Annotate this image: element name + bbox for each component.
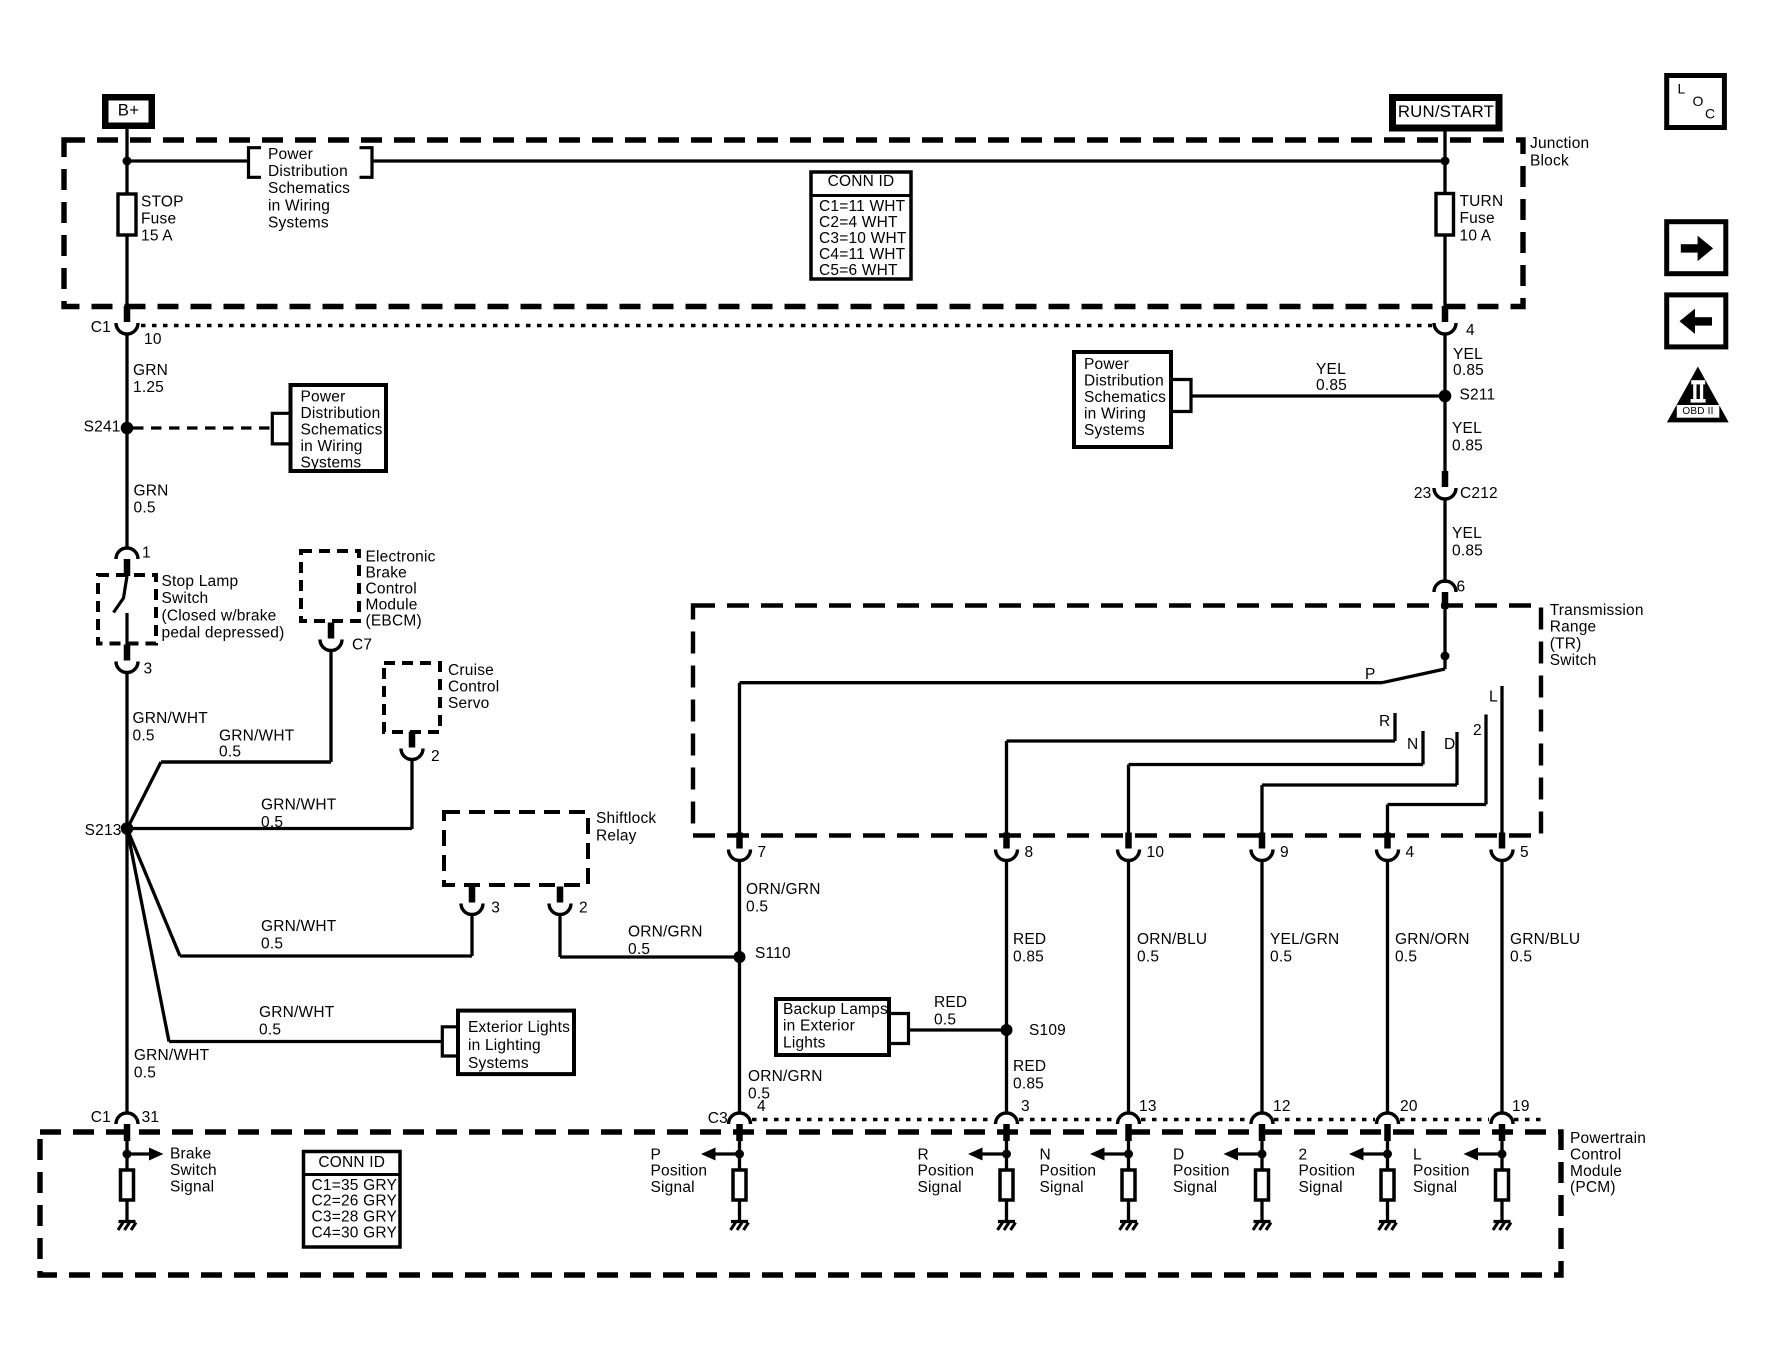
svg-text:(PCM): (PCM) xyxy=(1570,1179,1616,1196)
svg-text:Systems: Systems xyxy=(301,455,362,472)
svg-text:0.5: 0.5 xyxy=(1510,948,1532,965)
svg-text:Position: Position xyxy=(1299,1163,1356,1180)
svg-text:Control: Control xyxy=(366,581,417,598)
reference bracket right xyxy=(360,148,373,178)
wire 2 horizontal xyxy=(1388,803,1487,806)
junction node at B+ xyxy=(123,157,132,166)
svg-text:C: C xyxy=(1705,106,1715,122)
wire 7 to C3 (ORN/GRN) xyxy=(738,861,741,1114)
wire 5 to 19 (GRN/BLU) xyxy=(1500,861,1503,1114)
svg-text:C3=10 WHT: C3=10 WHT xyxy=(819,230,907,247)
svg-text:N: N xyxy=(1407,736,1418,753)
svg-text:YEL: YEL xyxy=(1453,346,1483,363)
svg-text:pedal depressed): pedal depressed) xyxy=(162,625,285,642)
svg-text:GRN: GRN xyxy=(134,482,169,499)
connector 1 (stop lamp switch) xyxy=(116,548,138,559)
svg-text:Switch: Switch xyxy=(162,590,209,607)
connector pin 20 (PCM top) xyxy=(1377,1113,1399,1124)
power terminal B+ xyxy=(105,97,152,126)
svg-text:Distribution: Distribution xyxy=(268,163,348,180)
svg-text:C1=35 GRY: C1=35 GRY xyxy=(312,1177,398,1194)
svg-text:P: P xyxy=(651,1146,662,1163)
svg-text:3: 3 xyxy=(144,660,153,677)
svg-text:R: R xyxy=(1379,713,1390,730)
connector pin 4 (PCM top) xyxy=(729,1113,751,1124)
wire shiftlock 3 to S213 xyxy=(470,915,473,957)
svg-text:10 A: 10 A xyxy=(1460,227,1492,244)
svg-text:Module: Module xyxy=(1570,1163,1622,1180)
svg-text:RED: RED xyxy=(1013,931,1046,948)
splice S109 xyxy=(1001,1024,1013,1036)
svg-text:4: 4 xyxy=(757,1098,766,1115)
svg-text:Signal: Signal xyxy=(1413,1179,1457,1196)
junction dot (P position) xyxy=(735,1150,744,1159)
svg-text:GRN/WHT: GRN/WHT xyxy=(134,1047,210,1064)
brake signal arrow xyxy=(131,1152,149,1155)
svg-text:ORN/GRN: ORN/GRN xyxy=(628,923,703,940)
brake switch signal wire xyxy=(125,1141,128,1170)
svg-text:0.5: 0.5 xyxy=(1395,948,1417,965)
svg-text:C1: C1 xyxy=(91,1109,111,1126)
svg-text:C2=26 GRY: C2=26 GRY xyxy=(312,1193,398,1210)
connector 2 (shiftlock) xyxy=(557,887,564,903)
svg-text:10: 10 xyxy=(1147,844,1165,861)
splice S241 xyxy=(121,422,134,435)
svg-text:YEL: YEL xyxy=(1452,525,1482,542)
2 position signal arrow xyxy=(1364,1152,1384,1155)
wire EBCM branch diagonal to S213 xyxy=(127,762,161,829)
svg-text:Fuse: Fuse xyxy=(141,211,176,228)
wire 9 to 12 (YEL/GRN) xyxy=(1260,861,1263,1114)
bus wire B+ junction to left bracket xyxy=(127,159,249,162)
svg-text:0.5: 0.5 xyxy=(746,898,768,915)
svg-text:in Lighting: in Lighting xyxy=(468,1037,541,1054)
svg-text:C7: C7 xyxy=(352,636,372,653)
svg-text:5: 5 xyxy=(1520,844,1529,861)
reference bracket left xyxy=(249,148,262,178)
svg-text:19: 19 xyxy=(1512,1098,1530,1115)
svg-text:23: 23 xyxy=(1414,485,1432,502)
stop lamp switch blade xyxy=(114,576,128,613)
svg-text:C4=11 WHT: C4=11 WHT xyxy=(819,246,906,263)
svg-text:Backup Lamps: Backup Lamps xyxy=(783,1001,888,1018)
fuse STOP 15A xyxy=(118,194,136,235)
stop lamp switch dashed box xyxy=(98,575,156,644)
ground (brake) xyxy=(119,1220,136,1223)
PCM dashed box xyxy=(40,1132,1561,1275)
resistor (D position) xyxy=(1256,1170,1269,1200)
P position signal arrow xyxy=(716,1152,736,1155)
P position signal wire xyxy=(738,1141,741,1170)
svg-text:Range: Range xyxy=(1550,619,1597,636)
wire resistor to ground (N) xyxy=(1127,1200,1130,1222)
wire resistor to ground (P) xyxy=(738,1200,741,1222)
svg-text:Schematics: Schematics xyxy=(1084,389,1166,406)
svg-text:20: 20 xyxy=(1400,1098,1418,1115)
dashed wire S241 to reference xyxy=(133,426,272,429)
svg-text:YEL: YEL xyxy=(1452,420,1482,437)
wire P horizontal xyxy=(740,681,1383,684)
wire R stub xyxy=(1393,713,1396,741)
resistor (P position) xyxy=(733,1170,746,1200)
connector C7 (EBCM) xyxy=(328,623,335,639)
R position signal arrow xyxy=(983,1152,1003,1155)
svg-text:Systems: Systems xyxy=(1084,422,1145,439)
junction block dashed box xyxy=(64,140,1523,307)
connector 3 (stop lamp switch) xyxy=(124,645,131,661)
svg-text:P: P xyxy=(1365,666,1376,683)
svg-text:0.85: 0.85 xyxy=(1013,948,1044,965)
connector C212 (in-line) xyxy=(1442,471,1449,487)
resistor (N position) xyxy=(1122,1170,1135,1200)
svg-text:GRN: GRN xyxy=(133,362,168,379)
CONN ID table (PCM) xyxy=(304,1152,401,1248)
svg-text:4: 4 xyxy=(1406,844,1415,861)
svg-text:9: 9 xyxy=(1280,844,1289,861)
wire D down to pin 9 xyxy=(1260,785,1263,835)
resistor brake xyxy=(121,1170,134,1200)
wire N horizontal xyxy=(1129,763,1424,766)
svg-text:Relay: Relay xyxy=(596,827,637,844)
splice S110 xyxy=(734,951,746,963)
svg-text:0.5: 0.5 xyxy=(1137,948,1159,965)
svg-text:0.5: 0.5 xyxy=(134,500,156,517)
wire 4 to 20 (GRN/ORN) xyxy=(1386,861,1389,1114)
connector pin 10 (TR switch bottom) xyxy=(1125,833,1132,849)
svg-text:Control: Control xyxy=(448,679,499,696)
svg-text:D: D xyxy=(1444,736,1455,753)
connector pin 12 (PCM top) xyxy=(1251,1113,1273,1124)
svg-text:Switch: Switch xyxy=(1550,652,1597,669)
svg-text:15 A: 15 A xyxy=(141,228,173,245)
svg-text:0.85: 0.85 xyxy=(1453,362,1484,379)
wire connector 4 to S211 (YEL) xyxy=(1443,334,1446,396)
wire resistor to ground (brake) xyxy=(125,1200,128,1222)
harness dotted line top xyxy=(141,324,1432,327)
svg-text:STOP: STOP xyxy=(141,193,184,210)
svg-text:8: 8 xyxy=(1025,844,1034,861)
wire P down to pin 7 xyxy=(738,683,741,835)
wire RUN/START down through TURN fuse to connector 4 xyxy=(1443,129,1446,307)
wire exterior-lights branch xyxy=(127,829,169,1042)
svg-text:10: 10 xyxy=(144,331,162,348)
D position signal arrow xyxy=(1238,1152,1258,1155)
svg-text:Transmission: Transmission xyxy=(1550,602,1644,619)
fuse TURN 10A xyxy=(1436,194,1454,236)
svg-text:Signal: Signal xyxy=(1040,1179,1084,1196)
connector 3 (shiftlock) xyxy=(469,887,476,903)
svg-text:Position: Position xyxy=(1413,1163,1470,1180)
svg-text:Lights: Lights xyxy=(783,1034,826,1051)
svg-text:Signal: Signal xyxy=(1173,1179,1217,1196)
connector pin 8 (TR switch bottom) xyxy=(1003,833,1010,849)
svg-text:Electronic: Electronic xyxy=(366,549,436,566)
svg-text:Control: Control xyxy=(1570,1146,1621,1163)
svg-text:S213: S213 xyxy=(85,822,122,839)
svg-text:Systems: Systems xyxy=(468,1055,529,1072)
reference bracket (right box) xyxy=(1171,380,1191,412)
svg-text:D: D xyxy=(1173,1146,1184,1163)
svg-text:C2=4 WHT: C2=4 WHT xyxy=(819,214,898,231)
svg-text:Junction: Junction xyxy=(1530,135,1589,152)
svg-text:GRN/ORN: GRN/ORN xyxy=(1395,931,1470,948)
connector pin 5 (TR switch bottom) xyxy=(1499,833,1506,849)
svg-text:CONN ID: CONN ID xyxy=(828,173,895,190)
svg-text:Brake: Brake xyxy=(170,1145,212,1162)
svg-text:12: 12 xyxy=(1273,1098,1291,1115)
N position signal wire xyxy=(1127,1141,1130,1170)
wire 8 to 3 (RED) xyxy=(1005,861,1008,1114)
svg-text:1.25: 1.25 xyxy=(133,379,164,396)
TR switch dashed box xyxy=(693,606,1541,836)
svg-text:Schematics: Schematics xyxy=(268,180,350,197)
EBCM dashed box xyxy=(301,551,359,621)
svg-text:Power: Power xyxy=(1084,356,1129,373)
D position signal wire xyxy=(1260,1141,1263,1170)
svg-text:(Closed w/brake: (Closed w/brake xyxy=(162,607,277,624)
svg-text:2: 2 xyxy=(579,899,588,916)
page icon arrow next xyxy=(1667,222,1726,274)
R position signal wire xyxy=(1005,1141,1008,1170)
svg-text:S110: S110 xyxy=(755,945,791,962)
svg-text:Switch: Switch xyxy=(170,1162,217,1179)
connector 6 (TR switch) xyxy=(1434,581,1456,592)
svg-text:S109: S109 xyxy=(1029,1022,1066,1039)
splice S211 xyxy=(1439,390,1452,403)
svg-text:GRN/WHT: GRN/WHT xyxy=(261,918,337,935)
svg-text:6: 6 xyxy=(1457,578,1466,595)
svg-text:in Exterior: in Exterior xyxy=(783,1018,855,1035)
connector 4 pin (junction block bottom) xyxy=(1442,306,1449,322)
junction dot (L position) xyxy=(1498,1150,1507,1159)
svg-text:C4=30 GRY: C4=30 GRY xyxy=(312,1225,398,1242)
svg-text:Position: Position xyxy=(1173,1163,1230,1180)
svg-text:R: R xyxy=(918,1146,929,1163)
svg-text:C3=28 GRY: C3=28 GRY xyxy=(312,1209,398,1226)
wire S211 to C212 xyxy=(1443,396,1446,474)
svg-text:0.5: 0.5 xyxy=(261,935,283,952)
svg-text:ORN/GRN: ORN/GRN xyxy=(748,1068,823,1085)
junction dot brake xyxy=(123,1150,132,1159)
wire resistor to ground (2) xyxy=(1386,1200,1389,1222)
wire C1 to S241 (GRN) xyxy=(125,334,128,549)
svg-text:Signal: Signal xyxy=(918,1179,962,1196)
svg-text:7: 7 xyxy=(758,844,767,861)
svg-text:C1=11 WHT: C1=11 WHT xyxy=(819,198,906,215)
svg-text:Shiftlock: Shiftlock xyxy=(596,810,656,827)
wire D horizontal xyxy=(1262,783,1457,786)
svg-text:3: 3 xyxy=(1021,1098,1030,1115)
svg-text:Cruise: Cruise xyxy=(448,662,494,679)
svg-text:YEL: YEL xyxy=(1316,361,1346,378)
svg-text:(EBCM): (EBCM) xyxy=(366,612,422,629)
svg-text:GRN/WHT: GRN/WHT xyxy=(133,710,209,727)
connector 2 (servo) xyxy=(409,732,416,748)
svg-text:L: L xyxy=(1489,688,1498,705)
svg-text:Signal: Signal xyxy=(1299,1179,1343,1196)
svg-text:0.85: 0.85 xyxy=(1316,377,1347,394)
wire servo branch horizontal xyxy=(127,827,412,830)
svg-text:L: L xyxy=(1413,1146,1422,1163)
svg-text:0.5: 0.5 xyxy=(134,1064,156,1081)
svg-text:Position: Position xyxy=(918,1163,975,1180)
svg-text:0.85: 0.85 xyxy=(1452,437,1483,454)
junction dot (R position) xyxy=(1002,1150,1011,1159)
wire N down to pin 10 xyxy=(1127,765,1130,836)
svg-text:ORN/GRN: ORN/GRN xyxy=(746,881,821,898)
svg-text:Power: Power xyxy=(268,146,313,163)
svg-text:C212: C212 xyxy=(1460,485,1498,502)
svg-text:CONN ID: CONN ID xyxy=(318,1154,385,1171)
CONN ID table (junction block) xyxy=(811,172,911,279)
wire S213 down to C1/31 xyxy=(125,829,128,1114)
svg-text:0.5: 0.5 xyxy=(934,1011,956,1028)
svg-text:Signal: Signal xyxy=(170,1178,214,1195)
svg-text:Position: Position xyxy=(651,1163,708,1180)
svg-text:Schematics: Schematics xyxy=(301,422,383,439)
svg-text:Stop Lamp: Stop Lamp xyxy=(162,573,239,590)
svg-text:Distribution: Distribution xyxy=(301,405,381,422)
OBD II symbol xyxy=(1667,367,1729,423)
junction node at RUN/START xyxy=(1441,157,1450,166)
resistor (L position) xyxy=(1496,1170,1509,1200)
connector pin 9 (TR switch bottom) xyxy=(1259,833,1266,849)
svg-text:GRN/BLU: GRN/BLU xyxy=(1510,931,1580,948)
wire reference to S211 (YEL) xyxy=(1191,394,1445,397)
wire 2 down to pin 4 xyxy=(1386,805,1389,836)
L position signal wire xyxy=(1500,1141,1503,1170)
svg-text:OBD II: OBD II xyxy=(1682,406,1713,417)
wire backup lamps to S109 (RED) xyxy=(909,1028,1007,1031)
wire R horizontal xyxy=(1007,739,1396,742)
wire N stub xyxy=(1421,731,1424,765)
svg-text:Fuse: Fuse xyxy=(1460,210,1495,227)
svg-text:13: 13 xyxy=(1139,1098,1157,1115)
svg-text:0.5: 0.5 xyxy=(1270,948,1292,965)
wire 2 stub xyxy=(1484,715,1487,805)
page icon arrow previous xyxy=(1667,295,1726,347)
svg-text:S241: S241 xyxy=(84,418,121,435)
wire resistor to ground (R) xyxy=(1005,1200,1008,1222)
svg-text:GRN/WHT: GRN/WHT xyxy=(219,727,295,744)
svg-text:2: 2 xyxy=(1473,722,1482,739)
svg-text:L: L xyxy=(1678,81,1686,97)
svg-text:GRN/WHT: GRN/WHT xyxy=(259,1004,335,1021)
svg-text:RED: RED xyxy=(1013,1058,1046,1075)
svg-text:S211: S211 xyxy=(1460,386,1496,403)
ground (N position) xyxy=(1120,1220,1137,1223)
junction dot (2 position) xyxy=(1383,1150,1392,1159)
svg-text:RUN/START: RUN/START xyxy=(1398,102,1494,121)
splice S213 xyxy=(121,822,134,835)
shiftlock relay dashed box xyxy=(444,812,588,885)
ground (D position) xyxy=(1254,1220,1271,1223)
connector pin 3 (PCM top) xyxy=(996,1113,1018,1124)
svg-text:ORN/BLU: ORN/BLU xyxy=(1137,931,1207,948)
harness dotted line bottom xyxy=(752,1118,994,1121)
svg-text:C5=6 WHT: C5=6 WHT xyxy=(819,262,898,279)
wire R down to pin 8 xyxy=(1005,741,1008,835)
reference box Backup Lamps in Exterior Lights xyxy=(776,999,889,1055)
ground (P position) xyxy=(731,1220,748,1223)
svg-text:2: 2 xyxy=(431,748,440,765)
wire EBCM branch horizontal xyxy=(161,760,331,764)
svg-text:4: 4 xyxy=(1466,322,1475,339)
ground (2 position) xyxy=(1379,1220,1396,1223)
svg-text:0.85: 0.85 xyxy=(1013,1075,1044,1092)
svg-text:(TR): (TR) xyxy=(1550,635,1582,652)
reference bracket at S241 box xyxy=(272,413,290,444)
N position signal arrow xyxy=(1105,1152,1125,1155)
wire servo down to S213 branch xyxy=(410,760,413,829)
svg-text:RED: RED xyxy=(934,994,967,1011)
connector C1 pin 31 (PCM) xyxy=(116,1113,138,1124)
power terminal RUN/START xyxy=(1393,98,1500,129)
connector pin 19 (PCM top) xyxy=(1491,1113,1513,1124)
svg-text:31: 31 xyxy=(142,1109,160,1126)
svg-text:Exterior Lights: Exterior Lights xyxy=(468,1019,570,1036)
wire D stub xyxy=(1455,732,1458,785)
svg-text:Servo: Servo xyxy=(448,695,490,712)
svg-text:0.5: 0.5 xyxy=(628,941,650,958)
resistor (2 position) xyxy=(1381,1170,1394,1200)
L position signal arrow xyxy=(1478,1152,1498,1155)
reference box Exterior Lights in Lighting Systems xyxy=(458,1011,574,1075)
reference bracket exterior lights xyxy=(442,1027,458,1056)
svg-text:0.5: 0.5 xyxy=(259,1021,281,1038)
wire connector 3 to S213 xyxy=(125,672,128,829)
bus wire right bracket to RUN/START junction xyxy=(372,159,1445,162)
svg-text:1: 1 xyxy=(142,544,151,561)
reference box Power Distribution Schematics (S241) xyxy=(291,385,387,471)
svg-text:0.85: 0.85 xyxy=(1452,542,1483,559)
reference bracket backup lamps xyxy=(889,1014,909,1044)
svg-text:0.5: 0.5 xyxy=(261,814,283,831)
wire shiftlock 2 to S110 xyxy=(558,915,561,958)
svg-text:2: 2 xyxy=(1299,1146,1308,1163)
wire P diagonal xyxy=(1382,669,1445,683)
svg-text:TURN: TURN xyxy=(1460,193,1504,210)
connector C1 pin 10 (junction block bottom) xyxy=(124,306,131,322)
wire 10 to 13 (ORN/BLU) xyxy=(1127,861,1130,1114)
junction dot (D position) xyxy=(1258,1150,1267,1159)
TR wiper node xyxy=(1441,652,1450,661)
wire C212 to connector 6 (YEL) xyxy=(1443,499,1446,583)
svg-text:O: O xyxy=(1693,93,1704,109)
wire L down to pin 5 xyxy=(1500,686,1503,835)
svg-text:Power: Power xyxy=(301,389,346,406)
TR wiper wire from pin 6 xyxy=(1443,608,1446,669)
svg-text:Module: Module xyxy=(366,596,418,613)
svg-text:3: 3 xyxy=(491,899,500,916)
wire resistor to ground (D) xyxy=(1260,1200,1263,1222)
page icon LOC xyxy=(1667,76,1725,128)
svg-text:Block: Block xyxy=(1530,152,1569,169)
ground (L position) xyxy=(1494,1220,1511,1223)
svg-text:YEL/GRN: YEL/GRN xyxy=(1270,931,1339,948)
svg-text:Powertrain: Powertrain xyxy=(1570,1130,1646,1147)
svg-text:GRN/WHT: GRN/WHT xyxy=(261,796,337,813)
svg-text:in Wiring: in Wiring xyxy=(1084,405,1146,422)
svg-text:N: N xyxy=(1040,1146,1051,1163)
wire C7 down xyxy=(329,650,332,762)
svg-text:Position: Position xyxy=(1040,1163,1097,1180)
connector pin 4 (TR switch bottom) xyxy=(1384,833,1391,849)
connector pin 13 (PCM top) xyxy=(1118,1113,1140,1124)
svg-text:0.5: 0.5 xyxy=(219,744,241,761)
2 position signal wire xyxy=(1386,1141,1389,1170)
reference box Power Distribution Schematics (right) xyxy=(1074,352,1171,447)
